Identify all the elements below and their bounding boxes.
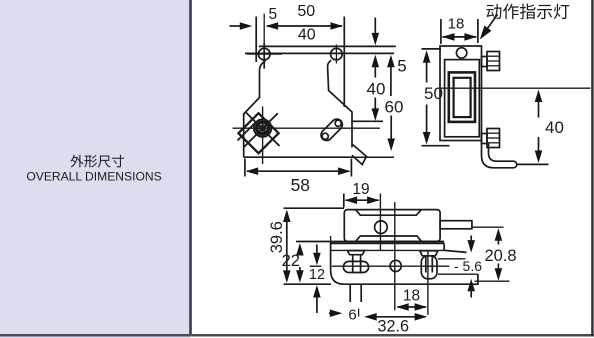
front view: adjuster knob (hatched circle): [254, 119, 272, 137]
bottom view: block hole circle: [375, 221, 388, 234]
side view: window outer frame: [449, 72, 475, 122]
dim line 19: [346, 199, 379, 201]
svg-text:18: 18: [403, 288, 420, 305]
dim: up arrow of 60: [387, 55, 395, 68]
bottom view: right bolt cap: [420, 251, 438, 256]
svg-text:40: 40: [367, 80, 386, 99]
front view: mounting foot bottom right: [352, 144, 366, 165]
dim 5.6: down arrow: [470, 236, 472, 244]
side view: window inner frame: [454, 78, 471, 117]
label 动作指示灯 (action indicator light): [486, 4, 569, 20]
svg-text:40: 40: [298, 27, 316, 44]
vertical divider between panel and drawing: [189, 0, 192, 336]
bottom view: left clamp stem: [352, 255, 354, 274]
bottom view: cable channel lines right: [438, 258, 465, 260]
dim line 18 with arrows: [443, 36, 477, 38]
svg-text:60: 60: [385, 98, 404, 117]
dim extension lines for 50: [422, 48, 442, 50]
front view: body outline left side: [244, 61, 266, 158]
front view: horizontal centre line: [233, 127, 381, 129]
left label panel (lavender): [0, 0, 190, 338]
side view: body outer rectangle: [440, 46, 482, 141]
bottom extension line (body bottom extended left): [284, 283, 332, 285]
dim line 18 (bottom view): [398, 306, 426, 308]
bottom view: terminal legs: [349, 284, 351, 302]
dim text 39.6 (rotated): [268, 221, 286, 253]
bottom view: main body outline: [331, 243, 478, 284]
dim line 32.6: [366, 316, 426, 318]
bottom view: block inner bottom line with chamfers: [356, 236, 422, 241]
front view: right pivot hole: [331, 48, 343, 60]
svg-text:6: 6: [348, 307, 356, 324]
front view: body outline right side: [328, 60, 352, 147]
bottom view: left clamp capsule: [343, 261, 368, 272]
svg-text:32.6: 32.6: [378, 318, 410, 336]
dim extension for 19 left: [343, 194, 345, 208]
side view: indicator light circle: [456, 48, 466, 58]
front view: top mounting plate: [259, 45, 396, 47]
dim 5.6: up arrow: [467, 279, 475, 292]
dim extension 39.6 top: [284, 207, 345, 209]
body top-left corner connector: [330, 236, 332, 243]
dim 12: up arrow below body: [313, 285, 321, 298]
dim: up arrow to plate bottom (40): [372, 55, 380, 68]
dim extension line C (x=344): [343, 17, 345, 108]
dim extension lines for 18: [440, 19, 442, 44]
dim line 58: [247, 170, 349, 172]
svg-text:5: 5: [268, 6, 277, 23]
svg-text:39.6: 39.6: [268, 221, 286, 253]
front view: hatch line \ through knob: [246, 113, 280, 147]
front view: left pivot hole: [258, 48, 270, 60]
bottom view: actuator block outline: [344, 210, 440, 242]
dim 20.8: top arrow: [495, 228, 503, 241]
dim 6: short tick extension: [358, 309, 360, 317]
svg-text:12: 12: [309, 267, 325, 283]
svg-text:50: 50: [424, 84, 443, 103]
bottom view: block inner top line with chamfers: [356, 210, 422, 215]
cable extension line for 20.8: [472, 226, 503, 228]
side view: parting line extended right: [440, 87, 591, 89]
dim line 39.6: [283, 210, 291, 223]
dim line terminator for 40: [353, 120, 384, 122]
dim line 40/50 with arrowheads: [267, 25, 342, 27]
svg-text:22: 22: [282, 252, 300, 270]
panel subtitle OVERALL DIMENSIONS: [26, 170, 161, 184]
front view: hatch line / upper left: [238, 122, 257, 141]
bottom view: cable: [440, 221, 472, 229]
dim extension line A (x=256): [255, 17, 257, 63]
front view: body bottom edge: [244, 156, 352, 158]
side view: upper screw terminal: [482, 57, 488, 67]
bottom view: left clamp cap: [347, 251, 364, 255]
dim line 40 (side view): [535, 90, 543, 103]
dim: down arrow of 60: [390, 116, 392, 142]
svg-text:19: 19: [352, 181, 369, 198]
dim line 50 (broken by text): [423, 50, 431, 63]
leader line to indicator light: [485, 15, 498, 33]
bottom view: body inner top line: [332, 249, 445, 251]
bottom view: middle hole circle: [390, 260, 401, 271]
svg-text:OVERALL DIMENSIONS: OVERALL DIMENSIONS: [26, 170, 161, 184]
dim 20.8: bottom arrow: [497, 264, 499, 272]
body bottom edge extension right (60 terminator): [351, 156, 394, 158]
dim line 22: [296, 243, 304, 256]
dim 12: down arrow: [316, 245, 318, 257]
dim extension line B (x=264): [263, 14, 265, 43]
bottom view: centre line: [310, 265, 322, 267]
white drawing area: [190, 0, 594, 338]
extension line x=427.9 (18 right): [427, 251, 429, 315]
front view: knob vertical centre line: [262, 107, 264, 165]
bottom table border: [0, 334, 594, 337]
dim extension lines for 58: [244, 159, 246, 177]
svg-text:50: 50: [297, 3, 315, 20]
svg-text:- 5.6: - 5.6: [454, 258, 482, 274]
extension line through block (19 right / centre): [379, 194, 381, 251]
front view: hatch line / through knob: [244, 113, 278, 147]
dim 20.8 bottom extension: [475, 280, 510, 282]
panel title 外形尺寸: [70, 155, 124, 168]
svg-text:58: 58: [291, 175, 310, 195]
front view: lever link capsule with two holes: [319, 117, 345, 143]
side view: L mounting bracket: [482, 141, 514, 168]
side view: body inner rectangle: [445, 60, 480, 137]
dim extension 22 top / block bottom extended: [296, 241, 444, 243]
svg-text:5: 5: [397, 57, 406, 76]
dim extension line for 40 bottom: [518, 163, 549, 165]
dim: down arrow of 40 to lever line: [374, 98, 376, 112]
dim: down arrow above plate (5): [374, 18, 376, 36]
svg-text:40: 40: [545, 118, 564, 137]
svg-text:20.8: 20.8: [484, 247, 516, 265]
bottom view: right bolt body: [421, 256, 437, 279]
dim: outside arrow pointing right at left extension: [230, 25, 246, 27]
extension line x=394.8 (18 left): [394, 202, 396, 310]
right table border: [591, 0, 593, 337]
side view: lower screw terminal: [482, 134, 488, 144]
svg-text:18: 18: [448, 16, 465, 33]
dim 6: outside arrow: [329, 312, 336, 314]
front view: diamond head frame: [238, 113, 278, 153]
